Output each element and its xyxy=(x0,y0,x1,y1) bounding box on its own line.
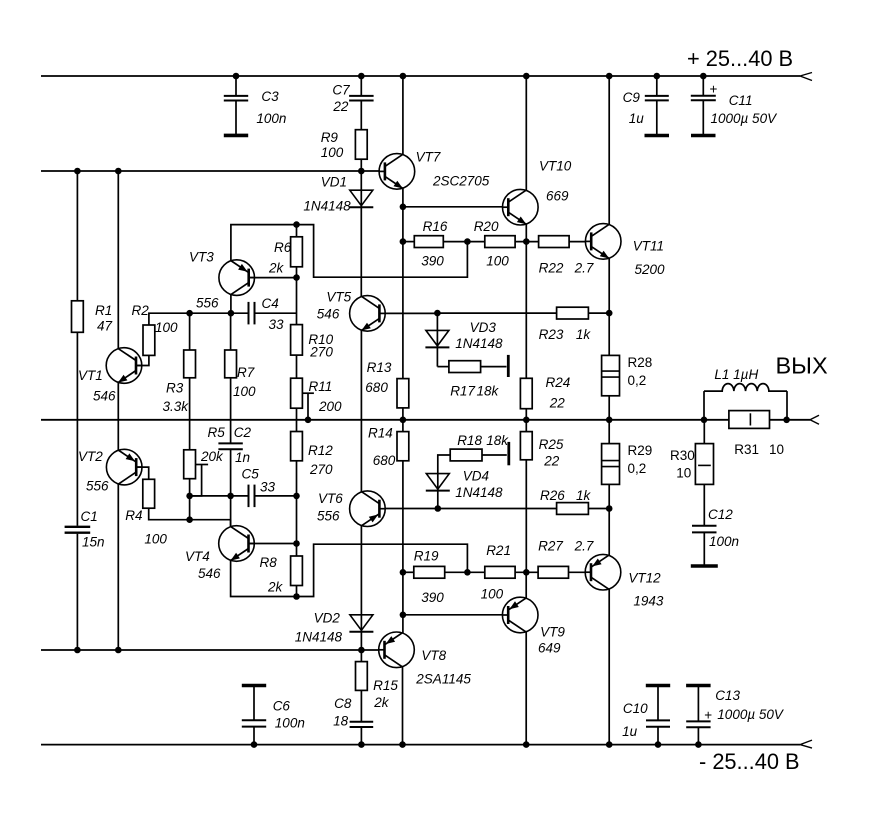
svg-text:100n: 100n xyxy=(709,534,739,549)
svg-text:18k: 18k xyxy=(477,384,500,399)
wire R8 bottom lead xyxy=(296,586,298,597)
capacitor C13 xyxy=(686,686,785,745)
wire VT3 collector to R7 xyxy=(230,313,232,350)
svg-text:C5: C5 xyxy=(242,467,260,482)
resistor R28 xyxy=(602,355,653,396)
wire R16 left lead xyxy=(403,241,414,243)
junction R5-wiper node xyxy=(186,493,193,500)
svg-text:47: 47 xyxy=(97,319,113,334)
junction rail4-VD2 xyxy=(358,647,365,654)
wire R12 to C5 node xyxy=(296,461,298,496)
svg-text:1943: 1943 xyxy=(633,594,664,609)
svg-text:VT11: VT11 xyxy=(633,239,664,254)
svg-text:C13: C13 xyxy=(715,688,740,703)
junction rail5-C10 xyxy=(655,741,662,748)
svg-text:5200: 5200 xyxy=(635,262,666,277)
svg-text:100: 100 xyxy=(321,145,344,160)
svg-text:C1: C1 xyxy=(81,509,98,524)
junction rail5-C13 xyxy=(695,741,702,748)
wire top cross-coupling xyxy=(297,225,468,278)
svg-text:R12: R12 xyxy=(308,443,333,458)
wire R17 right lead xyxy=(481,355,509,377)
svg-text:22: 22 xyxy=(543,454,560,469)
wire VT3 collector down xyxy=(230,294,232,313)
wire R29 to R26 node xyxy=(608,484,610,508)
wire R7 to C2 xyxy=(230,378,232,444)
svg-text:100n: 100n xyxy=(275,716,305,731)
svg-text:R15: R15 xyxy=(373,678,398,693)
svg-text:R13: R13 xyxy=(367,360,392,375)
wire VT9 collector to rail5 xyxy=(525,632,527,745)
svg-text:200: 200 xyxy=(318,399,342,414)
svg-text:R20: R20 xyxy=(474,219,499,234)
wire VD3 to R17 xyxy=(437,366,449,368)
resistor R22 xyxy=(539,236,594,276)
junction R6 top xyxy=(293,221,300,228)
wire bottom cross-coupling xyxy=(297,544,468,596)
wire rail4 to R15 xyxy=(360,650,362,662)
wire R26 node to VT12 emitter xyxy=(608,509,610,556)
inductor L1 xyxy=(704,367,787,420)
wire upper base rail (VT7 base net) xyxy=(41,170,379,172)
svg-text:100: 100 xyxy=(155,320,178,335)
svg-text:VT1: VT1 xyxy=(78,368,103,383)
junction rail1-C11 xyxy=(700,73,707,80)
svg-text:R29: R29 xyxy=(628,443,653,458)
svg-text:C3: C3 xyxy=(261,89,279,104)
wire VT7 collector to rail1 xyxy=(402,76,404,155)
junction rail3-R13 xyxy=(400,417,407,424)
wire R3 leads xyxy=(189,313,191,450)
junction VT4 base node xyxy=(293,540,300,547)
resistor R3 xyxy=(163,350,196,414)
diode VD4 xyxy=(426,469,503,501)
resistor R17 xyxy=(449,361,500,399)
transistor VT6 xyxy=(317,491,385,527)
resistor R18 xyxy=(450,433,509,461)
resistor R31 xyxy=(729,411,784,457)
svg-text:270: 270 xyxy=(309,345,333,360)
junction rail4-VT2 xyxy=(115,647,122,654)
svg-text:1k: 1k xyxy=(576,327,592,342)
junction node A VT3 collector xyxy=(228,310,235,317)
svg-text:10: 10 xyxy=(676,466,691,481)
svg-text:C9: C9 xyxy=(623,90,641,105)
svg-text:546: 546 xyxy=(317,307,340,322)
wire R9 to rail2 xyxy=(360,159,362,171)
svg-text:VT9: VT9 xyxy=(540,625,565,640)
junction rail3-R28 xyxy=(606,417,613,424)
resistor R15 xyxy=(356,662,399,710)
junction rail5-VT8 xyxy=(399,741,406,748)
svg-text:R4: R4 xyxy=(125,508,142,523)
wire C8 to rail5 xyxy=(360,727,362,745)
resistor R6 xyxy=(268,237,302,276)
wire node B segment xyxy=(190,519,231,521)
svg-text:+: + xyxy=(704,707,712,722)
capacitor C4 xyxy=(249,296,285,332)
resistor R26 xyxy=(540,488,592,514)
label -25...40V xyxy=(699,749,800,774)
svg-text:0,2: 0,2 xyxy=(628,461,647,476)
svg-text:VD2: VD2 xyxy=(314,611,341,626)
svg-text:100: 100 xyxy=(144,532,167,547)
svg-text:R18: R18 xyxy=(457,433,482,448)
svg-text:390: 390 xyxy=(421,254,444,269)
svg-text:R24: R24 xyxy=(546,375,571,390)
wire VT4 emitter down xyxy=(231,560,297,596)
wire output rail xyxy=(41,415,819,424)
svg-text:R7: R7 xyxy=(237,365,255,380)
svg-text:0,2: 0,2 xyxy=(628,373,647,388)
capacitor C6 xyxy=(242,686,305,745)
svg-text:22: 22 xyxy=(549,396,566,411)
transistor VT1 xyxy=(78,348,142,404)
svg-text:20k: 20k xyxy=(200,449,224,464)
capacitor C3 xyxy=(224,76,287,135)
capacitor C9 xyxy=(623,76,669,136)
label +25...40V xyxy=(687,46,793,71)
svg-text:556: 556 xyxy=(317,509,340,524)
junction node A R3 xyxy=(186,310,193,317)
wire rail3 to R14 xyxy=(402,420,404,432)
junction R6 bottom VT3 base xyxy=(293,274,300,281)
junction rail5-VT9 xyxy=(523,741,530,748)
svg-text:15n: 15n xyxy=(82,535,105,550)
junction rail1-C7 xyxy=(358,73,365,80)
transistor VT9 xyxy=(502,597,565,655)
resistor R10 xyxy=(291,325,334,360)
junction rail3-L1 left xyxy=(701,417,708,424)
wire VT6 base wire xyxy=(385,508,557,510)
capacitor C7 xyxy=(332,76,373,114)
diode VD1 xyxy=(303,175,373,214)
wire R19-R21 xyxy=(445,571,485,573)
svg-text:1n: 1n xyxy=(235,450,250,465)
transistor VT12 xyxy=(585,554,664,608)
wire R5 bottom xyxy=(189,479,191,520)
junction R16-R20 node xyxy=(464,238,471,245)
label R4 xyxy=(125,508,167,547)
svg-text:R16: R16 xyxy=(423,219,448,234)
svg-text:669: 669 xyxy=(546,189,569,204)
wire R1 to C1 xyxy=(76,332,78,526)
capacitor C10 xyxy=(622,686,670,745)
resistor R1 xyxy=(72,301,113,334)
diode VD3 xyxy=(425,320,503,351)
svg-text:VT3: VT3 xyxy=(189,250,214,265)
svg-text:C7: C7 xyxy=(332,83,350,98)
wire R19 left lead xyxy=(403,571,414,573)
wire rail2 to VD1 to VT5 collector xyxy=(360,171,362,297)
junction rail5-C8 xyxy=(358,741,365,748)
svg-text:- 25...40 В: - 25...40 В xyxy=(699,749,800,774)
svg-text:VD1: VD1 xyxy=(321,175,347,190)
wire R18 left to VD4 xyxy=(438,455,450,509)
junction rail1-VT11 xyxy=(606,73,613,80)
wire wiper node to C5 xyxy=(190,495,249,497)
svg-text:R6: R6 xyxy=(274,240,292,255)
wire VT6 emitter down through VD2 xyxy=(360,526,362,650)
svg-text:R25: R25 xyxy=(539,437,564,452)
svg-text:556: 556 xyxy=(196,296,219,311)
transistor VT7 xyxy=(379,150,490,190)
wire VT3 base to R6 xyxy=(249,277,297,279)
resistor R16 xyxy=(414,219,448,269)
junction VT7 emitter node xyxy=(400,204,407,211)
junction rail1-VT10 xyxy=(523,73,530,80)
svg-text:R5: R5 xyxy=(208,425,226,440)
wire VT3 emitter up xyxy=(231,225,297,261)
junction rail2-R1 xyxy=(74,168,81,175)
svg-text:C11: C11 xyxy=(729,93,753,108)
wire R24 to rail3 xyxy=(525,409,527,420)
wire R18 right lead xyxy=(482,442,509,465)
transistor VT8 xyxy=(379,632,472,687)
svg-text:VT8: VT8 xyxy=(421,648,446,663)
wire R26 right lead xyxy=(588,508,609,510)
junction R19 left xyxy=(400,569,407,576)
junction rail5-VT12 xyxy=(606,741,613,748)
svg-text:649: 649 xyxy=(538,641,561,656)
svg-text:R8: R8 xyxy=(260,555,278,570)
wire rail3 to R29 xyxy=(608,420,610,444)
svg-text:R14: R14 xyxy=(368,426,393,441)
svg-text:L1 1µH: L1 1µH xyxy=(714,367,758,382)
capacitor C12 xyxy=(691,507,739,566)
wire VT9 emitter up xyxy=(525,572,527,598)
junction rail1-VT7 xyxy=(400,73,407,80)
wire R16 node to R13 xyxy=(402,242,404,379)
wire VT11 node to R28 xyxy=(608,313,610,355)
svg-text:VT2: VT2 xyxy=(78,449,103,464)
svg-text:R17: R17 xyxy=(450,384,475,399)
resistor R9 xyxy=(321,130,367,160)
svg-text:VT7: VT7 xyxy=(416,150,441,165)
wire R20-R22 xyxy=(515,241,539,243)
wire C1 to lower rail xyxy=(76,534,78,650)
wire R11-R12 xyxy=(296,408,298,431)
wire VT10 collector to rail1 xyxy=(525,76,527,190)
svg-text:R27: R27 xyxy=(538,539,563,554)
junction R11 wiper-output rail xyxy=(305,417,312,424)
wire R27 to VT12 base xyxy=(569,571,586,573)
svg-text:100: 100 xyxy=(486,254,509,269)
svg-text:1N4148: 1N4148 xyxy=(295,630,343,645)
svg-text:546: 546 xyxy=(93,389,116,404)
wire VT2 base xyxy=(137,467,149,479)
wire VT1 base xyxy=(137,355,149,365)
resistor R14 xyxy=(368,426,409,469)
svg-text:VT12: VT12 xyxy=(628,571,661,586)
wire positive supply rail xyxy=(41,73,812,81)
svg-text:546: 546 xyxy=(198,566,221,581)
svg-text:2SC2705: 2SC2705 xyxy=(432,174,490,189)
junction R26 right xyxy=(606,505,613,512)
trimmer R5 xyxy=(184,425,226,496)
svg-text:R11: R11 xyxy=(309,379,333,394)
wire VT9 base wire xyxy=(403,614,503,616)
junction rail4-C1 xyxy=(74,647,81,654)
svg-text:2k: 2k xyxy=(373,695,390,710)
svg-text:R9: R9 xyxy=(321,130,339,145)
svg-text:1N4148: 1N4148 xyxy=(455,485,503,500)
wire R28 to rail3 xyxy=(608,396,610,420)
svg-text:1N4148: 1N4148 xyxy=(303,199,351,214)
junction VT11 emitter-R23 xyxy=(606,310,613,317)
resistor R4 xyxy=(143,479,155,508)
wire R10-R11 xyxy=(296,355,298,378)
svg-text:100: 100 xyxy=(233,384,256,399)
svg-text:33: 33 xyxy=(269,317,285,332)
junction rail1-C9 xyxy=(654,73,661,80)
wire R19 node to VT9 base node xyxy=(402,572,404,615)
transistor VT2 xyxy=(78,449,142,494)
svg-text:18k: 18k xyxy=(486,433,509,448)
wire VT11 emitter xyxy=(608,258,610,313)
wire VT5 base wire xyxy=(385,312,556,314)
wire R22 to VT11 base xyxy=(569,241,585,243)
wire R15 to C8 xyxy=(360,690,362,721)
resistor R21 xyxy=(481,543,515,602)
wire R6 leads xyxy=(296,225,298,278)
wire VT7 emitter to VT10 base xyxy=(403,206,503,208)
wire VT4 collector up xyxy=(230,520,232,527)
svg-text:R28: R28 xyxy=(628,355,653,370)
resistor R27 xyxy=(538,539,594,579)
svg-text:R22: R22 xyxy=(539,261,564,276)
junction R16 left xyxy=(400,238,407,245)
trimmer R11 xyxy=(291,378,342,420)
svg-text:680: 680 xyxy=(365,380,388,395)
svg-text:R30: R30 xyxy=(670,448,695,463)
svg-text:680: 680 xyxy=(373,453,396,468)
capacitor C5 xyxy=(242,467,276,508)
svg-text:556: 556 xyxy=(86,479,109,494)
wire R21-R27 xyxy=(515,571,538,573)
wire VD3 top lead xyxy=(436,313,438,367)
wire VT9 node to VT8 emitter xyxy=(402,615,404,633)
svg-text:1u: 1u xyxy=(629,111,645,126)
svg-text:VT6: VT6 xyxy=(318,491,343,506)
resistor R2 xyxy=(143,325,155,355)
svg-text:100n: 100n xyxy=(256,111,286,126)
wire VT12 collector to rail5 xyxy=(608,589,610,745)
wire R2 top to node A xyxy=(149,313,190,325)
svg-text:R3: R3 xyxy=(166,381,184,396)
wire VT4 base lead xyxy=(249,543,297,545)
resistor R25 xyxy=(520,432,563,469)
resistor R24 xyxy=(520,375,570,411)
resistor R19 xyxy=(414,549,445,606)
capacitor C2 xyxy=(218,425,251,465)
junction rail3-R24 xyxy=(523,417,530,424)
transistor VT5 xyxy=(317,290,385,332)
wire negative supply rail xyxy=(41,740,812,748)
wire VT10 node to R24 xyxy=(525,242,527,379)
wire VT2 collector to lower rail xyxy=(117,484,119,650)
wire R30 to C12 xyxy=(703,484,705,525)
svg-text:R26: R26 xyxy=(540,488,565,503)
svg-text:C6: C6 xyxy=(273,699,291,714)
svg-text:1N4148: 1N4148 xyxy=(455,336,503,351)
svg-text:VD4: VD4 xyxy=(463,469,489,484)
svg-text:33: 33 xyxy=(260,480,276,495)
svg-text:390: 390 xyxy=(421,590,444,605)
svg-text:VT5: VT5 xyxy=(326,290,351,305)
junction rail2-VD1 xyxy=(358,168,365,175)
svg-text:C12: C12 xyxy=(708,507,733,522)
wire R4 bottom to node B xyxy=(149,508,190,520)
junction rail3-R31 right xyxy=(783,417,790,424)
svg-text:2.7: 2.7 xyxy=(574,261,594,276)
wire VT7 node down to R16 node xyxy=(402,207,404,242)
wire R13 to rail3 xyxy=(402,408,404,420)
wire VT1 emitter to VT2 emitter xyxy=(117,382,119,450)
resistor R13 xyxy=(365,360,409,408)
svg-text:C8: C8 xyxy=(334,696,352,711)
wire VT1 collector xyxy=(117,171,119,349)
wire VT4 base node to R8 xyxy=(296,544,298,557)
capacitor C8 xyxy=(333,696,373,728)
wire lower base rail (VT8 base net) xyxy=(41,649,379,651)
svg-text:R31: R31 xyxy=(734,442,759,457)
wire C2 to VT4 collector node xyxy=(230,449,232,526)
wire VT7 emitter down xyxy=(402,188,404,207)
svg-text:C10: C10 xyxy=(623,701,648,716)
junction R19-R21 node xyxy=(464,569,471,576)
svg-text:2.7: 2.7 xyxy=(574,539,594,554)
wire node A segment xyxy=(190,312,249,314)
transistor VT3 xyxy=(189,250,255,311)
resistor R8 xyxy=(260,555,303,595)
svg-text:1u: 1u xyxy=(622,724,638,739)
svg-text:VT4: VT4 xyxy=(185,549,210,564)
wire R14 down to R19 node xyxy=(402,461,404,573)
junction R8 bottom xyxy=(293,593,300,600)
wire C7 to R9 xyxy=(360,101,362,130)
junction R21-VT9 emitter xyxy=(523,569,530,576)
resistor R30 xyxy=(670,444,714,485)
wire VT5 emitter down xyxy=(360,330,362,492)
wire C4 to R10 line xyxy=(255,312,297,314)
svg-text:+ 25...40 В: + 25...40 В xyxy=(687,46,793,71)
svg-text:10: 10 xyxy=(769,442,784,457)
junction rail2-VT1 xyxy=(115,168,122,175)
wire R23 right lead xyxy=(588,312,609,314)
label R2 xyxy=(132,303,179,335)
wire VT10 emitter xyxy=(525,224,527,242)
resistor R29 xyxy=(602,443,653,484)
resistor R12 xyxy=(291,432,334,478)
svg-text:ВЫХ: ВЫХ xyxy=(776,353,828,379)
transistor VT4 xyxy=(185,526,254,581)
junction R20-VT10 emitter xyxy=(523,238,530,245)
svg-text:3.3k: 3.3k xyxy=(163,399,190,414)
svg-text:R1: R1 xyxy=(95,303,112,318)
svg-text:100: 100 xyxy=(481,587,504,602)
capacitor C11 xyxy=(691,76,778,136)
svg-text:2SA1145: 2SA1145 xyxy=(415,672,471,687)
svg-text:C4: C4 xyxy=(262,296,279,311)
label VYH output xyxy=(776,353,828,379)
resistor R7 xyxy=(225,350,256,399)
resistor R23 xyxy=(539,307,592,342)
junction VD3 top xyxy=(434,310,441,317)
transistor VT11 xyxy=(585,224,665,277)
svg-text:VT10: VT10 xyxy=(539,159,572,174)
wire R30 top lead xyxy=(703,420,705,444)
